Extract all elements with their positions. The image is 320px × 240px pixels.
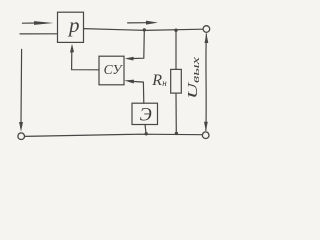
svg-text:н: н [162,78,167,88]
svg-text:R: R [151,72,162,89]
svg-text:СУ: СУ [104,62,124,77]
svg-text:р: р [67,13,80,37]
svg-text:Э: Э [140,105,152,125]
